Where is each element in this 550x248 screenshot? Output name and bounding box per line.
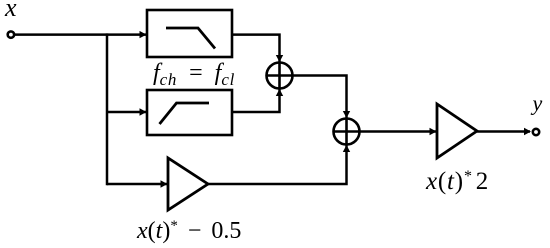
wire HPF output to summing junction S1 bbox=[232, 90, 280, 113]
svg-text:x(t)*−0.5: x(t)*−0.5 bbox=[136, 218, 241, 244]
svg-text:y: y bbox=[531, 91, 543, 116]
wire S2 output to amplifier A2 bbox=[360, 130, 437, 133]
svg-text:x(t)*2: x(t)*2 bbox=[425, 168, 489, 195]
wire branch vertical bbox=[106, 33, 109, 185]
high-pass filter block bbox=[147, 90, 232, 135]
gain amplifier A2 bbox=[437, 104, 477, 158]
wire LPF output to summing junction S1 bbox=[232, 35, 280, 62]
wire A1 output to summing junction S2 bbox=[208, 146, 347, 185]
wire input to LPF bbox=[15, 33, 147, 36]
summing junction S2 bbox=[334, 119, 360, 145]
node y output terminal bbox=[533, 129, 539, 135]
low-pass response curve bbox=[166, 28, 215, 49]
svg-text:x: x bbox=[4, 0, 17, 22]
gain amplifier A1 bbox=[168, 158, 208, 210]
wire branch to HPF bbox=[107, 111, 146, 114]
node x input terminal bbox=[8, 31, 14, 37]
wire S1 output to summing junction S2 bbox=[293, 76, 347, 118]
high-pass response curve bbox=[160, 103, 210, 124]
wire A2 output to node y bbox=[477, 130, 530, 133]
low-pass filter block bbox=[147, 10, 232, 57]
wire branch to amplifier A1 bbox=[107, 183, 167, 186]
summing junction S1 bbox=[267, 63, 293, 89]
